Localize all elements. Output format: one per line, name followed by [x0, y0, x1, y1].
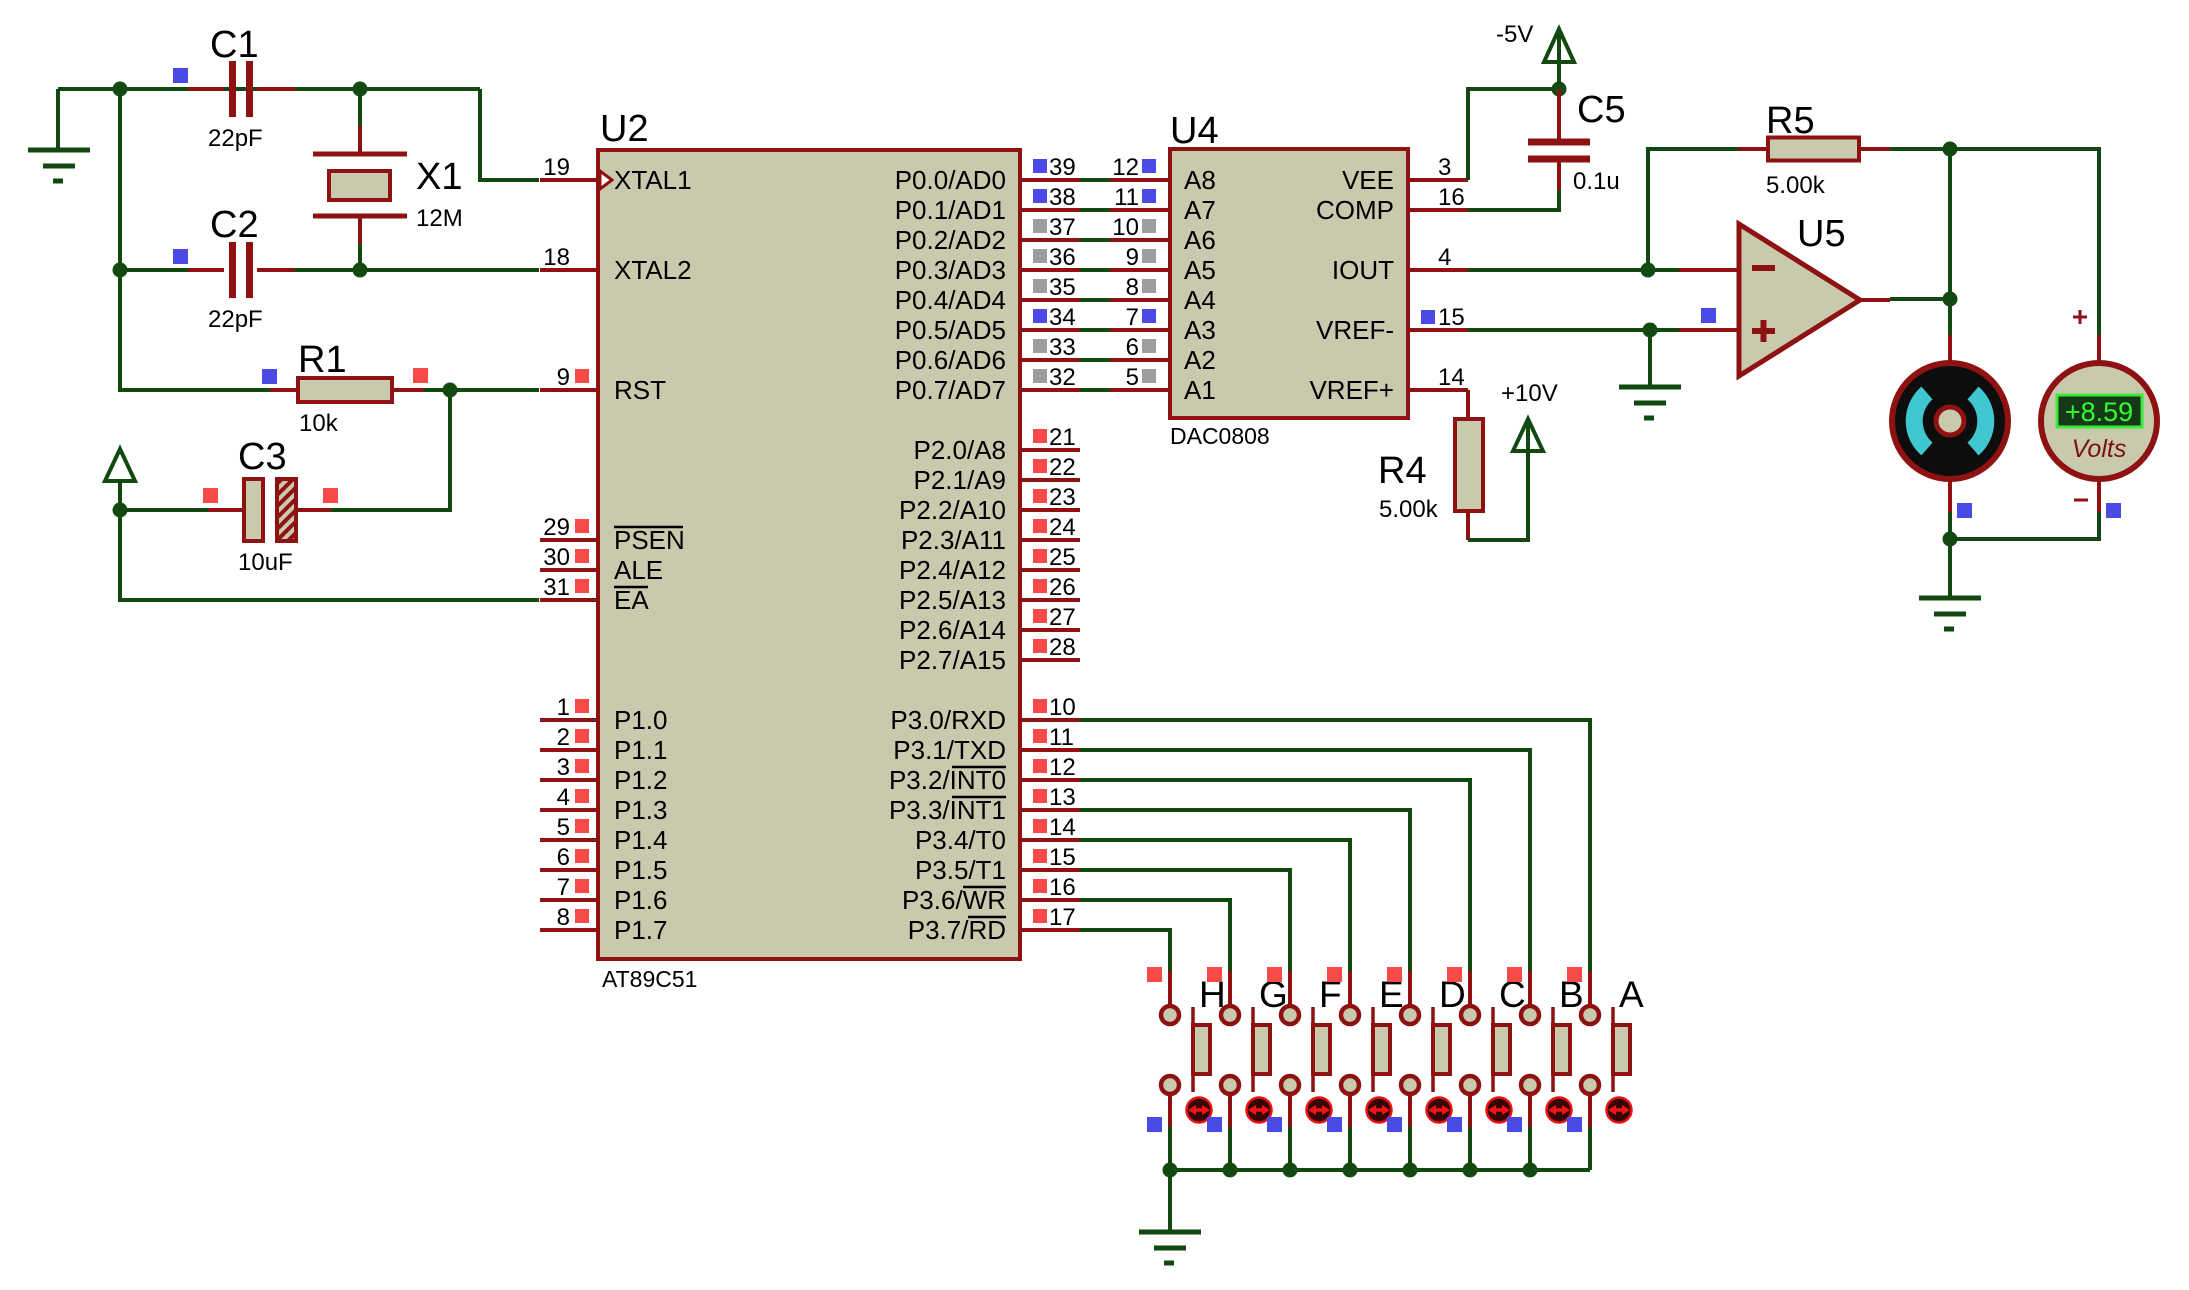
svg-text:C3: C3	[238, 436, 287, 478]
svg-text:IOUT: IOUT	[1332, 255, 1394, 285]
svg-text:27: 27	[1049, 604, 1076, 631]
U4 pin 3 VEE lead	[1408, 178, 1468, 182]
svg-text:P2.4/A12: P2.4/A12	[899, 555, 1006, 585]
junction bus at F	[1283, 1163, 1298, 1178]
svg-text:8: 8	[557, 904, 570, 931]
wire top node to voltmeter	[1950, 149, 2099, 335]
svg-text:C2: C2	[210, 204, 259, 246]
svg-text:P3.7/RD: P3.7/RD	[908, 915, 1006, 945]
svg-text:39: 39	[1049, 154, 1076, 181]
svg-text:P3.0/RXD: P3.0/RXD	[890, 705, 1006, 735]
power VCC arrow at C3	[105, 449, 135, 481]
button H bottom marker blue	[1147, 1117, 1162, 1132]
U5 minus input lead	[1679, 268, 1739, 272]
U2 pin 23 marker	[1033, 489, 1047, 503]
button A actuator	[1607, 1098, 1632, 1123]
svg-text:11: 11	[1049, 724, 1074, 751]
svg-text:12: 12	[1112, 154, 1139, 181]
U2 pin 32 marker	[1033, 369, 1047, 383]
svg-text:16: 16	[1438, 184, 1465, 211]
U4 pin 12 A8 lead	[1110, 178, 1170, 182]
voltmeter bottom lead	[2097, 479, 2101, 512]
U2 pin 25 P2.4/A12 lead	[1020, 568, 1080, 572]
motor bottom marker blue	[1957, 503, 1972, 518]
svg-text:A1: A1	[1184, 375, 1216, 405]
button C actuator	[1487, 1098, 1512, 1123]
U2 pin 37 P0.2/AD2 lead	[1020, 238, 1080, 242]
U2 pin 5 marker	[575, 819, 589, 833]
U2 pin 27 P2.6/A14 lead	[1020, 628, 1080, 632]
capacitor C1	[188, 61, 295, 117]
U2 pin 19 XTAL1 lead	[540, 178, 600, 182]
junction IOUT / R5 branch	[1641, 263, 1656, 278]
svg-text:10: 10	[1049, 694, 1076, 721]
wire output node up	[1948, 149, 1952, 299]
svg-text:PSEN: PSEN	[614, 525, 685, 555]
U2 pin 12 P3.2/INT0 lead	[1020, 778, 1080, 782]
U2 pin 2 marker	[575, 729, 589, 743]
svg-text:A: A	[1619, 974, 1644, 1015]
capacitor C3 electrolytic	[208, 479, 331, 541]
U4 pin 7 marker	[1142, 309, 1156, 323]
svg-text:U5: U5	[1797, 213, 1846, 255]
resistor R5	[1738, 138, 1890, 161]
wire left rail to EA	[120, 510, 539, 600]
junction X1 top stem / top wire	[353, 82, 368, 97]
C2 terminal marker blue	[173, 249, 188, 264]
svg-text:P0.2/AD2: P0.2/AD2	[895, 225, 1006, 255]
wire top net from ground to XTAL1 elbow	[58, 87, 480, 91]
svg-text:P1.1: P1.1	[614, 735, 668, 765]
svg-text:ALE: ALE	[614, 555, 663, 585]
C3 left marker red	[203, 488, 218, 503]
junction -5V node	[1552, 82, 1567, 97]
svg-text:P0.3/AD3: P0.3/AD3	[895, 255, 1006, 285]
U2 pin 17 marker	[1033, 909, 1047, 923]
wire button B to bus	[1528, 1127, 1532, 1170]
P3.3 INT1 overline	[952, 796, 1006, 799]
svg-text:22pF: 22pF	[208, 125, 263, 152]
U2 pin 17 P3.7/RD lead	[1020, 928, 1080, 932]
wire P0 bus row y=360	[1080, 358, 1110, 362]
wire -5V node stem up	[1557, 62, 1561, 89]
wire P0 bus row y=180	[1080, 178, 1110, 182]
wire button bus	[1170, 1168, 1590, 1172]
push button E	[1341, 971, 1390, 1127]
U2 pin 9 marker	[575, 369, 589, 383]
U2 pin 22 P2.1/A9 lead	[1020, 478, 1080, 482]
svg-text:XTAL1: XTAL1	[614, 165, 692, 195]
svg-text:A2: A2	[1184, 345, 1216, 375]
U2 pin 31 EA lead	[540, 598, 600, 602]
junction C3 node left rail	[113, 503, 128, 518]
voltmeter bottom marker blue	[2106, 503, 2121, 518]
wire C3 left	[120, 508, 208, 512]
svg-text:33: 33	[1049, 334, 1076, 361]
chip U2 AT89C51 body	[598, 150, 1020, 959]
svg-text:0.1u: 0.1u	[1573, 168, 1620, 195]
chip U4 DAC0808 body	[1170, 149, 1408, 418]
wire voltmeter bottom to ground node	[1950, 512, 2099, 539]
wire P3 row to button E	[1080, 840, 1350, 973]
U2 pin 7 marker	[575, 879, 589, 893]
U2 pin 8 marker	[575, 909, 589, 923]
svg-text:P2.6/A14: P2.6/A14	[899, 615, 1006, 645]
U2 pin 3 marker	[575, 759, 589, 773]
wire R5 right to output node	[1890, 147, 1950, 151]
U4 pin 10 A6 lead	[1110, 238, 1170, 242]
svg-text:36: 36	[1049, 244, 1076, 271]
svg-text:7: 7	[557, 874, 570, 901]
wire ground drop top-left	[56, 89, 60, 150]
wire button H to bus	[1168, 1127, 1172, 1170]
junction bus at H	[1163, 1163, 1178, 1178]
capacitor C5	[1528, 89, 1590, 190]
U4 pin 10 marker	[1142, 219, 1156, 233]
wire button C to bus	[1468, 1127, 1472, 1170]
svg-text:10uF: 10uF	[238, 549, 293, 576]
U2 pin 32 P0.7/AD7 lead	[1020, 388, 1080, 392]
svg-text:4: 4	[1438, 244, 1451, 271]
svg-text:P3.1/TXD: P3.1/TXD	[893, 735, 1006, 765]
svg-text:AT89C51: AT89C51	[602, 966, 697, 992]
button D bottom marker blue	[1387, 1117, 1402, 1132]
button E bottom marker blue	[1327, 1117, 1342, 1132]
U2 pin 29 marker	[575, 519, 589, 533]
button A bottom marker blue	[1567, 1117, 1582, 1132]
wire ground node stem	[1948, 539, 1952, 598]
motor bottom lead	[1948, 479, 1952, 512]
wire motor bottom to ground node	[1948, 512, 1952, 539]
svg-text:P3.2/INT0: P3.2/INT0	[889, 765, 1006, 795]
svg-text:XTAL2: XTAL2	[614, 255, 692, 285]
U2 pin 21 P2.0/A8 lead	[1020, 448, 1080, 452]
svg-text:P1.7: P1.7	[614, 915, 668, 945]
wire C2 right to XTAL2 pin	[295, 268, 539, 272]
U2 pin 24 P2.3/A11 lead	[1020, 538, 1080, 542]
button G actuator	[1247, 1098, 1272, 1123]
svg-text:R5: R5	[1766, 100, 1815, 142]
svg-text:VREF-: VREF-	[1316, 315, 1394, 345]
wire VCC arrow stem to C3 node	[118, 481, 122, 510]
svg-text:2: 2	[557, 724, 570, 751]
button C bottom marker blue	[1447, 1117, 1462, 1132]
svg-text:32: 32	[1049, 364, 1076, 391]
junction RST node	[443, 383, 458, 398]
svg-text:P3.5/T1: P3.5/T1	[915, 855, 1006, 885]
wire P3 row to button D	[1080, 810, 1410, 973]
svg-text:U4: U4	[1170, 110, 1219, 152]
ground G1 top-left	[28, 150, 90, 181]
U2 pin 25 marker	[1033, 549, 1047, 563]
voltmeter minus label	[2074, 499, 2088, 502]
P3.2 INT0 overline	[952, 766, 1006, 769]
svg-text:P1.4: P1.4	[614, 825, 668, 855]
button B wire marker red	[1507, 967, 1522, 982]
U2 pin 18 XTAL2 lead	[540, 268, 600, 272]
svg-text:A7: A7	[1184, 195, 1216, 225]
svg-text:13: 13	[1049, 784, 1076, 811]
U2 pin 3 P1.2 lead	[540, 778, 600, 782]
U2 pin 4 marker	[575, 789, 589, 803]
EA overline	[614, 586, 648, 589]
wire R4 bottom to +10V	[1468, 451, 1528, 540]
svg-text:P3.6/WR: P3.6/WR	[902, 885, 1006, 915]
wire left rail C1-C2-R1	[120, 89, 270, 390]
U2 pin 23 P2.2/A10 lead	[1020, 508, 1080, 512]
wire plus input ground stem	[1648, 330, 1652, 387]
svg-text:9: 9	[557, 364, 570, 391]
resistor R1	[270, 378, 424, 402]
wire C5 bottom to COMP	[1468, 190, 1559, 210]
wire C3 right up to RST node	[331, 390, 450, 510]
ground G4 buttons	[1139, 1232, 1201, 1263]
svg-text:5: 5	[1126, 364, 1139, 391]
U2 pin 21 marker	[1033, 429, 1047, 443]
svg-text:P1.2: P1.2	[614, 765, 668, 795]
svg-text:P2.5/A13: P2.5/A13	[899, 585, 1006, 615]
U2 pin 9 RST lead	[540, 388, 600, 392]
button H wire marker red	[1147, 967, 1162, 982]
U2 pin 38 P0.1/AD1 lead	[1020, 208, 1080, 212]
op-amp U5	[1739, 224, 1860, 376]
U2 pin 6 P1.5 lead	[540, 868, 600, 872]
U2 pin 34 P0.5/AD5 lead	[1020, 328, 1080, 332]
wire X1 bottom stem	[358, 242, 362, 270]
wire button A to bus	[1588, 1127, 1592, 1170]
U2 pin 14 P3.4/T0 lead	[1020, 838, 1080, 842]
wire P3 row to button F	[1080, 870, 1290, 973]
svg-text:9: 9	[1126, 244, 1139, 271]
U2 pin 31 marker	[575, 579, 589, 593]
svg-text:P2.2/A10: P2.2/A10	[899, 495, 1006, 525]
U2 pin 39 P0.0/AD0 lead	[1020, 178, 1080, 182]
svg-text:19: 19	[543, 154, 570, 181]
push button H	[1161, 971, 1210, 1127]
junction output node	[1943, 292, 1958, 307]
U2 pin 2 P1.1 lead	[540, 748, 600, 752]
U5 output lead	[1858, 298, 1890, 302]
button A wire marker red	[1567, 967, 1582, 982]
voltmeter top lead	[2097, 335, 2101, 363]
svg-text:P0.5/AD5: P0.5/AD5	[895, 315, 1006, 345]
wire P0 bus row y=270	[1080, 268, 1110, 272]
svg-text:P1.6: P1.6	[614, 885, 668, 915]
svg-text:P2.1/A9: P2.1/A9	[913, 465, 1006, 495]
wire P3 row to button C	[1080, 780, 1470, 973]
U2 pin 13 P3.3/INT1 lead	[1020, 808, 1080, 812]
svg-text:16: 16	[1049, 874, 1076, 901]
U2 pin 11 marker	[1033, 729, 1047, 743]
U5 plus input lead	[1679, 328, 1739, 332]
svg-text:12: 12	[1049, 754, 1076, 781]
svg-text:+10V: +10V	[1501, 380, 1558, 407]
svg-text:7: 7	[1126, 304, 1139, 331]
push button G	[1221, 971, 1270, 1127]
svg-text:4: 4	[557, 784, 570, 811]
button F actuator	[1307, 1098, 1332, 1123]
U2 pin 39 marker	[1033, 159, 1047, 173]
U2 pin 13 marker	[1033, 789, 1047, 803]
button B bottom marker blue	[1507, 1117, 1522, 1132]
wire P0 bus row y=210	[1080, 208, 1110, 212]
svg-text:14: 14	[1438, 364, 1465, 391]
svg-text:5.00k: 5.00k	[1379, 496, 1439, 523]
svg-text:P2.7/A15: P2.7/A15	[899, 645, 1006, 675]
wire bus ground stem	[1168, 1170, 1172, 1232]
wire output to node	[1890, 297, 1950, 301]
power +10V arrow	[1513, 419, 1543, 451]
op-amp plus node marker blue	[1701, 308, 1716, 323]
svg-text:P3.4/T0: P3.4/T0	[915, 825, 1006, 855]
U2 pin 26 marker	[1033, 579, 1047, 593]
button G bottom marker blue	[1207, 1117, 1222, 1132]
wire button E to bus	[1348, 1127, 1352, 1170]
svg-text:37: 37	[1049, 214, 1076, 241]
svg-text:P2.0/A8: P2.0/A8	[913, 435, 1006, 465]
U2 pin 1 marker	[575, 699, 589, 713]
junction bus at E	[1343, 1163, 1358, 1178]
R1 left marker blue	[262, 369, 277, 384]
wire IOUT to op-amp minus	[1468, 268, 1679, 272]
svg-text:P0.4/AD4: P0.4/AD4	[895, 285, 1006, 315]
capacitor C2	[188, 242, 295, 298]
U2 pin 15 marker	[1033, 849, 1047, 863]
svg-text:22pF: 22pF	[208, 306, 263, 333]
U2 pin 26 P2.5/A13 lead	[1020, 598, 1080, 602]
svg-text:P3.3/INT1: P3.3/INT1	[889, 795, 1006, 825]
svg-text:P0.7/AD7: P0.7/AD7	[895, 375, 1006, 405]
svg-text:A5: A5	[1184, 255, 1216, 285]
P3.6 WR overline	[963, 886, 1006, 889]
wire R1 right to RST pin	[424, 388, 539, 392]
svg-text:15: 15	[1438, 304, 1465, 331]
svg-text:10k: 10k	[299, 410, 339, 437]
push button B	[1521, 971, 1570, 1127]
U4 pin 15 marker blue	[1421, 310, 1435, 324]
svg-text:22: 22	[1049, 454, 1076, 481]
U4 pin 9 A5 lead	[1110, 268, 1170, 272]
motor M1	[1892, 363, 2008, 479]
U2 pin 38 marker	[1033, 189, 1047, 203]
svg-text:18: 18	[543, 244, 570, 271]
wire button F to bus	[1288, 1127, 1292, 1170]
U2 pin 6 marker	[575, 849, 589, 863]
svg-text:35: 35	[1049, 274, 1076, 301]
button F wire marker red	[1267, 967, 1282, 982]
button F bottom marker blue	[1267, 1117, 1282, 1132]
U2 pin 30 marker	[575, 549, 589, 563]
junction C2 row / left rail	[113, 263, 128, 278]
U2 pin 35 P0.4/AD4 lead	[1020, 298, 1080, 302]
button D actuator	[1427, 1098, 1452, 1123]
wire R5 branch up	[1648, 149, 1738, 270]
svg-text:31: 31	[543, 574, 570, 601]
svg-text:6: 6	[1126, 334, 1139, 361]
svg-text:A3: A3	[1184, 315, 1216, 345]
svg-text:EA: EA	[614, 585, 649, 615]
wire X1 top stem	[358, 89, 362, 128]
wire VEE up-over to -5V node	[1468, 89, 1559, 180]
U2 pin 4 P1.3 lead	[540, 808, 600, 812]
svg-text:25: 25	[1049, 544, 1076, 571]
wire P3 row to button B	[1080, 750, 1530, 973]
svg-text:29: 29	[543, 514, 570, 541]
wire P3 row to button G	[1080, 900, 1230, 973]
button E actuator	[1367, 1098, 1392, 1123]
svg-text:A4: A4	[1184, 285, 1216, 315]
svg-text:R4: R4	[1378, 450, 1427, 492]
junction bus at B	[1523, 1163, 1538, 1178]
U2 pin 16 P3.6/WR lead	[1020, 898, 1080, 902]
U4 pin 15 VREF- lead	[1408, 328, 1468, 332]
U2 pin 11 P3.1/TXD lead	[1020, 748, 1080, 752]
svg-text:21: 21	[1049, 424, 1076, 451]
svg-text:17: 17	[1049, 904, 1076, 931]
U4 pin 16 COMP lead	[1408, 208, 1468, 212]
U2 pin 8 P1.7 lead	[540, 928, 600, 932]
wire button D to bus	[1408, 1127, 1412, 1170]
ground G2 at op-amp plus input	[1619, 387, 1681, 418]
U2 pin 35 marker	[1033, 279, 1047, 293]
resistor R4	[1408, 390, 1483, 540]
svg-text:6: 6	[557, 844, 570, 871]
U2 pin 36 P0.3/AD3 lead	[1020, 268, 1080, 272]
junction output top node	[1943, 142, 1958, 157]
wire XTAL1 elbow down	[480, 89, 539, 180]
svg-text:RST: RST	[614, 375, 666, 405]
U4 pin 9 marker	[1142, 249, 1156, 263]
svg-text:24: 24	[1049, 514, 1076, 541]
U2 pin 15 P3.5/T1 lead	[1020, 868, 1080, 872]
U2 pin 10 P3.0/RXD lead	[1020, 718, 1080, 722]
voltmeter plus label	[2073, 310, 2087, 324]
push button F	[1281, 971, 1330, 1127]
power -5V arrow	[1544, 29, 1574, 62]
svg-text:VREF+: VREF+	[1309, 375, 1394, 405]
svg-text:8: 8	[1126, 274, 1139, 301]
junction X1 bottom stem / C2 row	[353, 263, 368, 278]
wire VREF- to op-amp plus	[1468, 328, 1679, 332]
P3.7 RD overline	[968, 916, 1006, 919]
svg-text:A8: A8	[1184, 165, 1216, 195]
svg-text:3: 3	[1438, 154, 1451, 181]
U4 pin 12 marker	[1142, 159, 1156, 173]
svg-text:5.00k: 5.00k	[1766, 172, 1826, 199]
junction bus at C	[1463, 1163, 1478, 1178]
svg-text:Volts: Volts	[2072, 435, 2127, 463]
svg-text:+8.59: +8.59	[2065, 397, 2133, 427]
push button C	[1461, 971, 1510, 1127]
U2 pin 34 marker	[1033, 309, 1047, 323]
U4 pin 6 marker	[1142, 339, 1156, 353]
svg-text:C5: C5	[1577, 89, 1626, 131]
svg-text:28: 28	[1049, 634, 1076, 661]
svg-text:3: 3	[557, 754, 570, 781]
svg-text:R1: R1	[298, 339, 347, 381]
svg-text:11: 11	[1114, 184, 1139, 211]
U2 pin 10 marker	[1033, 699, 1047, 713]
svg-text:5: 5	[557, 814, 570, 841]
svg-text:P1.3: P1.3	[614, 795, 668, 825]
junction bus at G	[1223, 1163, 1238, 1178]
U4 pin 7 A3 lead	[1110, 328, 1170, 332]
svg-text:DAC0808: DAC0808	[1170, 423, 1270, 449]
svg-text:U2: U2	[600, 108, 649, 150]
U4 pin 8 A4 lead	[1110, 298, 1170, 302]
U2 pin 27 marker	[1033, 609, 1047, 623]
U2 pin 28 P2.7/A15 lead	[1020, 658, 1080, 662]
